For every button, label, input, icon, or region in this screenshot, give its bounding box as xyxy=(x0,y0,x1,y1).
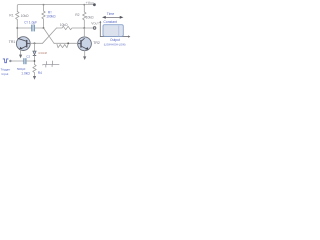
node TR2 collector junction xyxy=(83,27,85,29)
axis arrow up xyxy=(99,21,101,23)
axis arrow right xyxy=(128,35,130,37)
svg-text:1.0kΩ: 1.0kΩ xyxy=(21,72,30,76)
svg-text:Time: Time xyxy=(107,12,115,16)
ground TR1 emitter arrow xyxy=(19,55,22,59)
svg-text:TR2: TR2 xyxy=(93,41,100,45)
node TR1 base junction xyxy=(34,42,36,44)
time constant arrow xyxy=(103,16,123,18)
transistor TR1 xyxy=(16,37,30,51)
wire TR2 collector node to output terminal xyxy=(84,27,93,29)
output waveform axis xyxy=(100,23,128,37)
wire CT to RT node xyxy=(35,27,44,29)
resistor R5 TR2 base xyxy=(57,44,68,47)
resistor RT xyxy=(42,5,45,28)
capacitor C2 xyxy=(24,58,26,64)
resistor R1 xyxy=(16,12,19,20)
ground arrow xyxy=(33,76,36,80)
ground TR2 emitter arrow xyxy=(83,56,86,60)
output terminal xyxy=(93,27,96,30)
transistor TR2 xyxy=(78,37,92,51)
trigger input terminal xyxy=(9,60,11,62)
node TR2 base wire junction xyxy=(67,42,69,44)
svg-text:10kΩ: 10kΩ xyxy=(21,14,29,18)
svg-text:R1: R1 xyxy=(9,13,13,17)
svg-text:Constant: Constant xyxy=(103,20,117,24)
resistor R4 xyxy=(33,65,36,77)
svg-text:CT 1.0μF: CT 1.0μF xyxy=(24,21,37,25)
svg-text:R2: R2 xyxy=(75,13,79,17)
node trigger junction xyxy=(34,60,36,62)
trigger input pulse symbol xyxy=(3,59,9,63)
wire collector node to CT xyxy=(17,27,31,29)
wire TR2 collector into transistor xyxy=(83,36,85,38)
svg-text:Output: Output xyxy=(110,38,120,42)
svg-text:C2: C2 xyxy=(26,55,30,59)
wire top supply rail xyxy=(17,5,94,12)
svg-text:R4: R4 xyxy=(38,71,42,75)
svg-text:10kΩ: 10kΩ xyxy=(60,23,68,27)
capacitor CT xyxy=(32,25,34,32)
output pulse box xyxy=(103,25,123,37)
node RT CT junction xyxy=(43,27,45,29)
svg-text:Trigger: Trigger xyxy=(1,68,11,72)
svg-text:TR1: TR1 xyxy=(9,40,16,44)
node rail junction RT xyxy=(43,4,44,6)
svg-text:Input: Input xyxy=(2,72,9,76)
node rail junction R2 xyxy=(84,4,85,6)
svg-text:1N4148: 1N4148 xyxy=(38,52,47,55)
node TR1 collector junction xyxy=(16,27,18,29)
svg-text:500pF: 500pF xyxy=(17,67,26,71)
svg-text:+VCC: +VCC xyxy=(86,1,95,5)
wire diagonal RT node to TR2 base wire xyxy=(44,28,55,43)
node +Vcc dot xyxy=(93,3,96,6)
resistor R2 xyxy=(83,5,86,28)
svg-text:10kΩ: 10kΩ xyxy=(86,16,94,20)
wire diagonal TR1 base to R3 xyxy=(43,28,57,43)
wire TR1 emitter xyxy=(20,50,22,55)
wire C2 to D1 node xyxy=(27,60,35,62)
diode D1 xyxy=(33,43,36,64)
pulse falling edge xyxy=(118,25,120,36)
resistor R3 xyxy=(57,26,85,29)
wire R2 to TR2 collector xyxy=(83,28,85,37)
trigger spikes waveform xyxy=(42,61,59,68)
wire trigger to C2 xyxy=(12,60,24,62)
wire R1 to TR1 collector node xyxy=(16,20,18,38)
wire TR2 base xyxy=(54,42,78,44)
svg-text:(LOW-HIGH-LOW): (LOW-HIGH-LOW) xyxy=(104,43,126,47)
svg-text:VOUT: VOUT xyxy=(91,22,99,26)
wire TR1 base xyxy=(30,42,42,44)
wire TR2 emitter xyxy=(84,51,86,57)
svg-text:100kΩ: 100kΩ xyxy=(46,15,56,19)
